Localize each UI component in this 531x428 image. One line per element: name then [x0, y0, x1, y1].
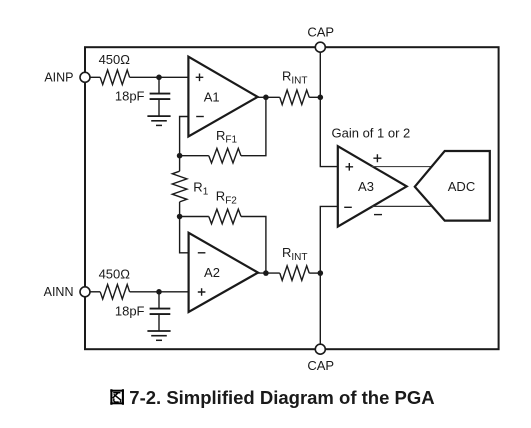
wire cap to ground (bottom): [158, 314, 160, 331]
svg-text:18pF: 18pF: [115, 303, 145, 318]
op-amp A2: [189, 233, 258, 312]
pin + of A2: [198, 288, 206, 296]
svg-text:Gain of 1 or 2: Gain of 1 or 2: [332, 126, 411, 141]
wire resistor to A2 + input: [130, 291, 189, 293]
pin + of A3: [346, 163, 354, 171]
caption: CJK glyph for "tu" drawn as vector: [110, 389, 124, 405]
resistor 450ohm (bottom): [100, 285, 129, 300]
wire RINT to CAP line (top): [309, 96, 320, 98]
op-amp A3: [338, 146, 407, 226]
terminal AINN: [80, 287, 90, 297]
svg-text:18pF: 18pF: [115, 89, 145, 104]
svg-text:ADC: ADC: [448, 179, 475, 194]
capacitor 18pF (top) plates: [150, 93, 171, 95]
wire A2 output: [257, 272, 280, 274]
terminal CAP top: [315, 42, 325, 52]
svg-text:7-2. Simplified Diagram of the: 7-2. Simplified Diagram of the PGA: [129, 387, 434, 408]
node junction A1 output: [263, 95, 269, 101]
wire RINT to CAP line (bottom): [309, 272, 320, 274]
terminal CAP bottom: [315, 344, 325, 354]
resistor RF1: [209, 148, 241, 163]
wire A3 + output to ADC: [372, 166, 431, 168]
node junction RINT top / CAP: [318, 95, 324, 101]
wire AINP input: [90, 76, 100, 78]
node junction A2 output: [263, 270, 269, 276]
resistor RF2: [209, 209, 241, 224]
pin - of A2: [198, 252, 206, 254]
svg-text:450Ω: 450Ω: [99, 52, 131, 67]
wire A1 feedback: output down to RF1: [241, 97, 266, 155]
svg-text:A1: A1: [204, 89, 220, 104]
node junction RINT bottom / CAP: [318, 270, 324, 276]
wire CAP top line down to A3 + input: [320, 47, 338, 166]
resistor 450ohm (top): [100, 70, 129, 85]
wire CAP bottom line up to A3 - input: [320, 206, 338, 349]
wire A1 output: [256, 96, 280, 98]
svg-text:A2: A2: [204, 265, 220, 280]
device boundary box: [85, 47, 499, 349]
capacitor 18pF (bottom) stem: [158, 292, 160, 309]
ground (top): [147, 115, 170, 117]
pin - of A3: [344, 206, 352, 208]
label - of A3 output: [374, 214, 382, 216]
wire RF1 to node, up to A1 - input: [180, 117, 209, 156]
resistor R1: [172, 171, 187, 202]
label + of A3 output: [373, 154, 381, 162]
pin - of A1: [196, 116, 204, 118]
node junction R1/RF2: [177, 214, 183, 220]
wire resistor to A1 + input: [130, 76, 189, 78]
wire node to RF2: [180, 216, 209, 218]
ADC block: [415, 151, 490, 221]
svg-text:AINP: AINP: [44, 71, 73, 85]
resistor RINT (top): [280, 90, 309, 105]
terminal AINP: [80, 72, 90, 82]
wire RF2 down to A2 output: [241, 217, 266, 274]
svg-text:450Ω: 450Ω: [99, 267, 131, 282]
wire cap to ground (top): [158, 99, 160, 116]
op-amp A1: [188, 57, 257, 137]
svg-text:AINN: AINN: [44, 285, 74, 299]
capacitor 18pF (top) stem: [158, 77, 160, 93]
node junction bottom input RC: [156, 289, 162, 295]
svg-text:A3: A3: [358, 179, 374, 194]
resistor RINT (bottom): [280, 266, 309, 281]
plus/minus pin marks: [196, 74, 382, 296]
wire node to R1: [179, 156, 181, 172]
wire node to A2 - input: [180, 217, 189, 253]
capacitor 18pF (bottom) plates: [150, 308, 171, 310]
wire A3 - output to ADC: [372, 205, 431, 207]
wire R1 to lower node: [179, 202, 181, 217]
node junction RF1/R1: [177, 153, 183, 159]
pin + of A1: [196, 74, 204, 82]
svg-text:CAP: CAP: [307, 25, 334, 40]
node junction top input RC: [156, 75, 162, 81]
ground (bottom): [147, 330, 170, 332]
wire AINN input: [90, 291, 100, 293]
svg-text:CAP: CAP: [307, 358, 334, 373]
